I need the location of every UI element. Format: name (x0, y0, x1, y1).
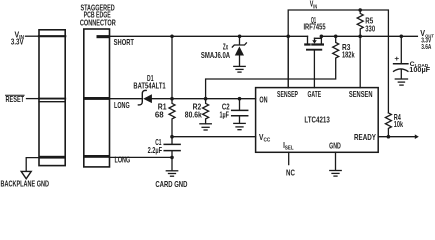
junction dot R5 top (358, 8, 362, 12)
node RESET label (6, 95, 25, 104)
svg-text:10k: 10k (394, 120, 404, 129)
svg-text:2.2µF: 2.2µF (148, 146, 163, 155)
wire LONG1 to D1 (110, 98, 143, 100)
node Zx label (201, 42, 230, 60)
node R5 label (365, 16, 375, 33)
junction dot VIN riser (286, 35, 290, 39)
wire R1 riser from rail (171, 36, 173, 98)
svg-text:182k: 182k (342, 50, 355, 59)
junction dot CLOAD (400, 35, 404, 39)
wire SENSEP riser to IC (287, 36, 289, 87)
ground C2 (234, 123, 245, 129)
resistor R3 (206, 36, 339, 98)
capacitor C2 (232, 99, 248, 124)
junction dot R4 bottom (387, 135, 391, 139)
svg-text:1µF: 1µF (220, 111, 230, 120)
wire ISEL stub (288, 152, 290, 164)
wire VCC row (172, 136, 256, 138)
svg-text:ON: ON (259, 96, 267, 105)
svg-text:RESET: RESET (6, 95, 25, 104)
wire SENSEN riser (359, 36, 361, 87)
ground Zx (234, 66, 245, 72)
junction dot ON row C2 (238, 97, 242, 101)
ground BACKPLANE GND arrow (21, 171, 31, 178)
svg-text:NC: NC (286, 169, 295, 178)
diode D1 schottky (138, 90, 151, 105)
wire READY row (378, 136, 415, 138)
svg-text:GATE: GATE (307, 90, 321, 99)
node CLOAD label (394, 54, 430, 74)
svg-text:ISEL: ISEL (283, 141, 294, 151)
node LONG label 1 (114, 101, 130, 110)
junction dot Zx (238, 35, 242, 39)
svg-text:LTC4213: LTC4213 (304, 116, 330, 125)
svg-text:CARD GND: CARD GND (155, 180, 187, 188)
node C1 label (148, 138, 163, 155)
node R1 label (155, 102, 167, 119)
svg-text:330: 330 (365, 25, 375, 34)
wire gate riser (313, 50, 315, 87)
node R2 label (185, 102, 202, 119)
connector title label (80, 3, 116, 27)
resistor R1 (169, 99, 175, 137)
node VOUT label (420, 29, 434, 51)
svg-text:READY: READY (354, 133, 376, 142)
wire VIN top rail and R4 riser (288, 10, 388, 113)
wire RESET lead (27, 98, 40, 100)
svg-text:3.3V: 3.3V (11, 37, 24, 46)
connector card column (84, 29, 110, 167)
node IC pin labels (259, 90, 376, 152)
svg-text:SHORT: SHORT (114, 38, 134, 47)
svg-text:CONNECTOR: CONNECTOR (80, 19, 116, 28)
node LONG label 2 (115, 156, 131, 165)
ground IC GND (330, 171, 341, 177)
wire backplane gnd exit (26, 158, 39, 172)
resistor R2 (203, 99, 209, 124)
junction dot rail R1 (170, 35, 174, 39)
wire READY arrowhead (415, 134, 419, 139)
node SHORT label (114, 38, 134, 47)
node NC label (286, 169, 295, 178)
resistor R4 (385, 113, 391, 137)
wire IC GND stub (335, 152, 337, 170)
node R3 label (342, 43, 355, 59)
ground R2 (200, 124, 211, 130)
resistor R5 (357, 10, 363, 36)
svg-text:GND: GND (329, 142, 341, 151)
diode Zx zener SMAJ6.0A (232, 36, 246, 66)
wire LONG2 row (110, 156, 173, 158)
svg-text:VCC: VCC (259, 133, 270, 143)
capacitor CLOAD (394, 36, 408, 78)
svg-text:SENSEN: SENSEN (349, 90, 373, 99)
junction dot Q1 source (320, 35, 324, 39)
ground CARD GND (166, 157, 177, 176)
junction dot ON row R1 (170, 97, 174, 101)
ground CLOAD (395, 79, 407, 85)
svg-text:100µF: 100µF (409, 65, 430, 74)
wire RESET overline (6, 94, 25, 96)
svg-text:IRF7455: IRF7455 (303, 23, 325, 32)
svg-text:LONG: LONG (114, 101, 130, 110)
junction dot VCC C1 (170, 135, 174, 139)
wire Q1 drain stub (307, 36, 309, 43)
node CARD GND label (155, 180, 187, 189)
junction dot R3 top (334, 35, 338, 39)
svg-text:BAT54ALT1: BAT54ALT1 (133, 81, 166, 90)
svg-text:68: 68 (155, 111, 164, 120)
node VIN input label (11, 30, 24, 46)
svg-text:3.6A: 3.6A (421, 42, 432, 51)
transistor Q1 (305, 36, 323, 49)
junction dot R5 bottom (358, 35, 362, 39)
wire VOUT rail (321, 35, 417, 37)
svg-text:80.6k: 80.6k (185, 111, 202, 120)
op-amp U1 LTC4213 box (256, 88, 379, 153)
node BACKPLANE GND label (1, 179, 50, 188)
node R4 label (394, 113, 404, 129)
node Q1 label (303, 16, 325, 32)
svg-text:SENSEP: SENSEP (277, 90, 298, 99)
wire VIN lead (26, 35, 40, 37)
junction dot ON row R2 (204, 97, 208, 101)
node D1 label (133, 74, 166, 90)
wire SHORT rail VIN (110, 35, 308, 37)
connector backplane column (39, 30, 65, 166)
svg-text:BACKPLANE GND: BACKPLANE GND (1, 179, 50, 188)
node C2 label (220, 102, 231, 119)
capacitor C1 (164, 137, 180, 158)
svg-text:SMAJ6.0A: SMAJ6.0A (201, 51, 230, 60)
svg-text:+: + (394, 54, 399, 63)
junction dot C1 bottom (170, 156, 174, 160)
wire ON row (152, 98, 256, 100)
node VIN rail label (310, 0, 317, 10)
svg-text:VIN: VIN (310, 0, 317, 10)
